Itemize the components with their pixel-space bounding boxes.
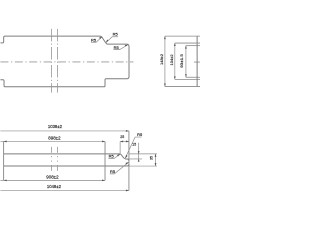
side view edge y45.2 [186, 45, 201, 47]
plan break line 1 [51, 147, 53, 171]
svg-text:898±2: 898±2 [48, 136, 61, 141]
dim line 898 [0, 140, 105, 142]
svg-text:R5: R5 [91, 37, 97, 42]
side view center line tick [194, 61, 201, 63]
plan break line 2 [56, 147, 58, 171]
side view edge y78.9 [175, 78, 201, 80]
svg-text:15: 15 [132, 143, 136, 147]
svg-text:93±1.5: 93±1.5 [179, 53, 184, 67]
dimension 104 line [174, 43, 176, 79]
svg-text:R5: R5 [137, 132, 143, 137]
svg-text:R5: R5 [114, 45, 120, 50]
part outline (front view) [0, 36, 129, 87]
center line (front view) [0, 61, 133, 63]
dim line 1038 [0, 130, 129, 132]
svg-text:148±2: 148±2 [159, 53, 164, 65]
svg-text:1038±2: 1038±2 [48, 124, 63, 129]
dim line 908 [0, 179, 105, 181]
side view bottom edge [165, 86, 201, 88]
svg-text:R5: R5 [113, 31, 119, 36]
plan view left edge + 908 ext [3, 141, 5, 180]
ext right y158.5 [127, 158, 142, 160]
svg-text:35: 35 [150, 156, 154, 160]
plan interior edge / ext [104, 141, 106, 180]
svg-text:104±2: 104±2 [169, 54, 174, 66]
dimension 93 line [185, 46, 187, 78]
side view part left edge [196, 36, 198, 86]
side view edge y42.6 [175, 42, 201, 44]
plan view bottom edge [4, 164, 129, 166]
plan view outline top edge + step [4, 154, 129, 161]
dimension 148 line [164, 36, 166, 86]
plan long right extension [128, 131, 130, 191]
break line 1 [51, 29, 53, 93]
break line 2 [56, 29, 58, 93]
svg-text:1048±2: 1048±2 [47, 184, 62, 189]
side view edge y76.8 [186, 76, 201, 78]
ext right y165.6 [129, 165, 157, 167]
side view top edge [165, 35, 201, 37]
svg-text:908±2: 908±2 [46, 174, 59, 179]
dim line 1048 [0, 189, 129, 191]
svg-text:25: 25 [120, 135, 124, 139]
ext right y153.4 [129, 153, 157, 155]
